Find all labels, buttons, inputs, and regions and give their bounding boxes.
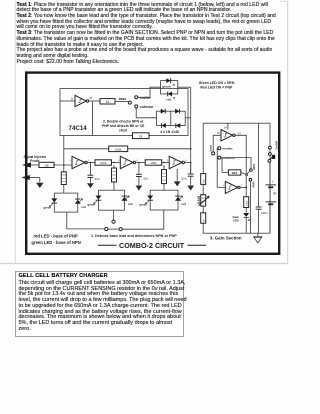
svg-text:13: 13 xyxy=(238,131,241,135)
svg-text:100k: 100k xyxy=(115,148,122,152)
node test terminal top xyxy=(112,220,115,223)
wire G2 out xyxy=(87,162,95,164)
node test terminal left xyxy=(105,227,108,230)
LED green 2 xyxy=(87,196,101,207)
diode D2 xyxy=(175,109,180,114)
node base terminal xyxy=(128,101,131,104)
svg-text:Probe: Probe xyxy=(30,159,40,163)
svg-text:red: red xyxy=(128,202,133,206)
LED red 1 xyxy=(75,199,86,209)
op-amp U1 inverter G1 xyxy=(71,95,93,106)
svg-text:green: green xyxy=(87,203,95,207)
node base terminal (gain) xyxy=(212,152,215,155)
ground pin stub xyxy=(174,169,181,187)
svg-text:COMBO-2 CIRCUIT: COMBO-2 CIRCUIT xyxy=(119,241,185,250)
wire G5 input xyxy=(213,135,221,152)
svg-text:3: 3 xyxy=(118,160,120,162)
label base (gain) xyxy=(208,144,212,151)
LED red (circuit 2) xyxy=(166,92,174,102)
faint scan row rule xyxy=(0,263,288,265)
svg-text:emitter: emitter xyxy=(222,147,233,151)
potentiometer GAIN xyxy=(197,195,210,206)
svg-text:14: 14 xyxy=(224,126,227,130)
svg-text:3. Gain Section: 3. Gain Section xyxy=(210,236,242,241)
wire switch down xyxy=(249,181,251,233)
resistor dropper R1 (vertical) xyxy=(61,165,66,193)
wire LED box1 to rail xyxy=(67,212,105,229)
svg-text:1k: 1k xyxy=(139,134,143,138)
probe arrow 2 xyxy=(21,175,39,183)
svg-text:SET: SET xyxy=(232,171,238,175)
svg-text:red: red xyxy=(166,97,171,101)
svg-text:2. Double-checks NPN or: 2. Double-checks NPN or xyxy=(103,120,144,124)
diode D4 xyxy=(176,123,181,128)
resistor 100k series 2 xyxy=(145,160,162,165)
faint scan column rule right xyxy=(287,1,289,264)
svg-text:4 x 1N 4148: 4 x 1N 4148 xyxy=(160,130,179,134)
svg-text:red: red xyxy=(81,205,86,209)
svg-text:22n: 22n xyxy=(95,177,100,181)
label green LED base of NPN xyxy=(31,240,80,245)
wire to G3 xyxy=(112,162,121,164)
wire 10k to G2 xyxy=(54,164,72,166)
capacitor 100n xyxy=(256,123,268,233)
svg-text:green LED - base of NPN: green LED - base of NPN xyxy=(31,240,80,245)
svg-text:Red LED ON = PNP: Red LED ON = PNP xyxy=(200,85,233,89)
svg-text:100k: 100k xyxy=(100,161,107,165)
LED green 3 xyxy=(139,196,153,207)
capacitor C3 22n xyxy=(181,163,193,186)
resistor dropper R2 (vertical) xyxy=(112,165,117,190)
wire base xyxy=(115,97,128,101)
LED gain xyxy=(232,213,250,233)
probe arrow xyxy=(22,162,39,167)
wire LED box3 to rail xyxy=(122,210,164,229)
wire G6 out xyxy=(240,187,247,189)
svg-text:15: 15 xyxy=(217,131,220,135)
LED box 3 xyxy=(150,190,178,210)
wire feedback rail xyxy=(64,136,192,165)
svg-text:9v: 9v xyxy=(273,192,277,196)
label 3. Gain Section xyxy=(210,236,242,241)
svg-text:6: 6 xyxy=(185,160,187,162)
op-amp inverter G2 xyxy=(70,156,90,168)
wire right rail down xyxy=(190,87,192,174)
svg-text:LED: LED xyxy=(233,219,240,223)
label Green LED ON = NPN xyxy=(199,81,235,90)
svg-text:4: 4 xyxy=(136,160,138,162)
resistor 100k (gain, vertical) xyxy=(244,197,249,213)
svg-text:2: 2 xyxy=(241,185,243,187)
svg-text:2: 2 xyxy=(88,160,90,162)
svg-text:11: 11 xyxy=(71,97,74,101)
LED box 2 xyxy=(98,190,124,210)
resistor 1k (base) xyxy=(100,99,115,104)
resistor 100k feedback xyxy=(109,146,128,152)
LED box 1 xyxy=(54,193,78,212)
op-amp inverter G6 xyxy=(223,181,243,193)
label COMBO-2 CIRCUIT xyxy=(98,241,206,250)
ground C3 xyxy=(187,186,194,191)
wire to G4 xyxy=(162,162,170,164)
svg-text:+: + xyxy=(271,180,273,184)
switch On/Off xyxy=(268,141,278,162)
op-amp inverter G3 xyxy=(118,156,138,168)
wire G4 out xyxy=(185,162,191,164)
resistor 10k xyxy=(39,162,54,167)
svg-text:GAIN: GAIN xyxy=(197,196,201,205)
svg-text:100n: 100n xyxy=(261,211,268,215)
wire collector to switch xyxy=(221,158,251,169)
LED red 2 xyxy=(121,196,132,206)
svg-text:short: short xyxy=(119,128,128,132)
resistor 100k series 1 xyxy=(95,160,112,165)
switch NPN/PNP xyxy=(247,164,257,188)
svg-text:green: green xyxy=(139,203,147,207)
svg-text:1: 1 xyxy=(223,185,225,187)
svg-text:base: base xyxy=(208,144,212,151)
resistor 1k (feedback, on box edge) xyxy=(133,133,150,139)
LED pair loop box xyxy=(161,81,178,94)
node collector terminal (gain) xyxy=(218,156,236,160)
capacitor C1 22n xyxy=(88,163,101,184)
node emitter terminal xyxy=(135,96,152,100)
faint scan column rule left xyxy=(15,1,288,264)
resistor 10k (gain chain) xyxy=(201,174,206,185)
wire collector to bridge xyxy=(136,108,156,118)
svg-text:red LED - base of PNP: red LED - base of PNP xyxy=(34,234,78,239)
svg-text:74C14: 74C14 xyxy=(69,125,88,132)
ground (probe) xyxy=(36,183,44,188)
wire G1 output xyxy=(89,100,100,102)
capacitor C2 22n xyxy=(136,163,149,186)
LED red 3 xyxy=(175,196,186,206)
svg-text:22n: 22n xyxy=(143,177,148,181)
LED green 1 xyxy=(43,198,57,209)
diode bridge 4 x 1N4148 loop xyxy=(157,111,191,125)
label 1. detects base lead xyxy=(91,234,177,238)
resistor 1k (gain chain) xyxy=(201,213,206,223)
svg-text:10: 10 xyxy=(89,96,92,100)
label red LED base of PNP xyxy=(34,234,78,239)
svg-text:5: 5 xyxy=(167,160,169,162)
svg-text:collector: collector xyxy=(140,105,154,109)
wire emitter to G6 input xyxy=(217,148,225,187)
node G1 out junction xyxy=(92,101,94,136)
LED green (circuit 2) xyxy=(162,78,174,88)
svg-text:1: 1 xyxy=(70,160,72,162)
wire G5 output xyxy=(235,135,246,196)
wire LED pair to right rail xyxy=(178,86,191,88)
label 74C14 xyxy=(69,125,88,132)
resistor dropper R3 (vertical) xyxy=(162,165,167,190)
schematic frame xyxy=(26,73,279,254)
svg-text:1. Detects base lead and deter: 1. Detects base lead and determines NPN … xyxy=(91,234,177,238)
wire emitter to LED pair xyxy=(138,87,161,97)
node emitter terminal (gain) xyxy=(218,147,234,151)
op-amp inverter G5 xyxy=(217,123,241,141)
wire LED box2 to node xyxy=(113,210,115,220)
svg-text:green: green xyxy=(162,84,171,88)
svg-text:1k: 1k xyxy=(106,100,110,104)
wire G1 input xyxy=(60,100,75,102)
svg-text:Green LED ON = NPN: Green LED ON = NPN xyxy=(199,81,235,85)
svg-text:22n: 22n xyxy=(181,177,186,181)
ground (gain section) xyxy=(253,233,263,243)
svg-text:green: green xyxy=(43,206,51,210)
svg-text:100k: 100k xyxy=(150,161,157,165)
node collector terminal xyxy=(135,105,155,109)
diode D3 xyxy=(161,123,166,128)
svg-text:On/Off: On/Off xyxy=(274,141,278,150)
ground C2 xyxy=(136,186,143,191)
svg-text:PNP: PNP xyxy=(252,181,256,187)
svg-text:10k: 10k xyxy=(44,164,49,168)
svg-text:NPN: NPN xyxy=(252,164,256,170)
svg-text:base: base xyxy=(119,97,127,101)
diode D1 xyxy=(161,109,166,114)
node test terminal right xyxy=(108,228,122,231)
box SET xyxy=(222,158,248,176)
ground C1 xyxy=(87,183,94,188)
svg-text:PNP and detects BE or CE: PNP and detects BE or CE xyxy=(102,124,145,128)
gain section box xyxy=(203,123,270,233)
label Signal Injector Probe xyxy=(23,155,46,163)
inner box circuit 2 xyxy=(60,89,188,136)
battery 9v xyxy=(266,162,277,233)
label 4 x 1N4148 xyxy=(160,130,179,134)
op-amp inverter G4 xyxy=(167,156,187,168)
wire G3 out xyxy=(136,162,146,164)
svg-text:red: red xyxy=(182,202,187,206)
note 2 double-checks xyxy=(102,120,145,133)
